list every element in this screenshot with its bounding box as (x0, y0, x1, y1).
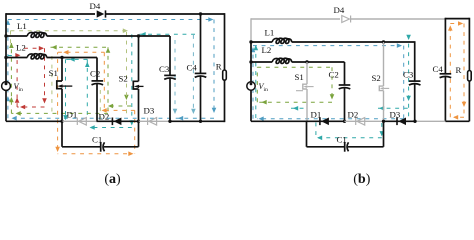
wire: rail gray segment to output box (b) (415, 120, 445, 122)
resistor R (a) (216, 61, 227, 80)
capacitor C3 (a) (159, 36, 176, 121)
switch S2 (a) (119, 36, 144, 121)
current path pale-olive (a): L1 to S2 path (11, 28, 129, 119)
wire: outer left border (a) with gap for source (5, 13, 7, 121)
svg-text:C3: C3 (403, 70, 414, 80)
node: S1 drain junction on L2 row (a) (60, 56, 63, 59)
capacitor C3 (b) (403, 41, 421, 121)
node: C3 bottom junction (a) (168, 120, 171, 123)
svg-text:C1: C1 (92, 135, 102, 145)
node: L1 row joins left border (a) (4, 34, 7, 37)
wire: left border (b) with gap for source (250, 42, 252, 121)
wire: outer right border (a) with resistor gap (224, 13, 226, 122)
svg-text:D4: D4 (90, 1, 101, 11)
node: C4 bottom junction (a) (199, 120, 202, 123)
switch S2 (b), inactive (372, 42, 390, 121)
node: S1 source junction on rail (a) (60, 120, 63, 123)
svg-text:S2: S2 (372, 73, 381, 83)
diode D3 (b) (390, 110, 407, 126)
current path orange loop (a): C2-D2-C1 loop (55, 50, 134, 156)
wire: top rail (a) (6, 13, 225, 15)
node: C4 top junction (a) (199, 12, 202, 15)
inductor L2 (a) (6, 43, 97, 59)
svg-text:R: R (216, 61, 222, 71)
svg-text:C2: C2 (90, 69, 100, 79)
resistor R (b) on box right edge (456, 65, 472, 81)
inductor L2 (b) (251, 45, 345, 63)
inductor L1 (b) (251, 28, 415, 44)
node: L2 row joins left border (b) (249, 60, 252, 63)
wire: rail black segment through D2 (a) (97, 120, 139, 122)
current path blue branch (a): down C4 side (191, 35, 196, 114)
switch S1 (a) (49, 58, 73, 122)
diode D4 (a) (90, 1, 106, 18)
capacitor C4 (a) (187, 14, 207, 121)
node: C2 bottom junction (b) (343, 120, 346, 123)
wire: rail gray segment through D3 (a) (139, 120, 171, 122)
voltage source Vin (a) (2, 82, 23, 93)
wire: rail gray segment through D1 (a) (62, 120, 97, 122)
current path teal segments (b): C1-D3 loop (254, 35, 411, 140)
diode D4 (b), inactive (334, 5, 351, 23)
capacitor C1 loop (b) (307, 121, 384, 151)
svg-text:D1: D1 (67, 110, 78, 120)
diode D2 (a) (99, 112, 122, 126)
capacitor C1 loop (a) (62, 121, 139, 151)
svg-text:S1: S1 (295, 72, 304, 82)
node: L1 row joins left border (b) (249, 40, 252, 43)
svg-text:R: R (456, 65, 462, 75)
svg-text:C1: C1 (337, 135, 347, 145)
node: C3 bottom junction (b) (413, 120, 416, 123)
voltage source Vin (b) (247, 82, 268, 93)
current path green loop (a): Vin-L2-C2 loop (9, 43, 131, 116)
svg-text:C4: C4 (187, 63, 198, 73)
svg-text:C2: C2 (329, 70, 339, 80)
output box with C4 and R (b) (445, 18, 469, 122)
wire: gray top rail (b), inactive D4 path (251, 18, 445, 42)
wire: bottom rail right segment (a) (170, 120, 225, 122)
svg-text:C4: C4 (433, 64, 444, 74)
svg-text:D2: D2 (99, 112, 110, 122)
capacitor C2 (a) (90, 58, 103, 122)
wire: rail gray segment through D2 (b) (345, 120, 384, 122)
current path teal loop (a): C2-S1-D1-C1 segments (8, 32, 196, 130)
diode D3 (a), inactive (144, 106, 157, 126)
wire: rail black segment through D3 (b) (384, 120, 416, 122)
wire: L1 row extension to C3 (a) (139, 35, 171, 37)
svg-text:D1: D1 (311, 110, 322, 120)
wire: bottom rail left segment (a) (6, 120, 64, 122)
capacitor C2 (b) (329, 62, 351, 121)
node: S2 source junction on rail (a) (137, 120, 140, 123)
svg-text:D2: D2 (348, 110, 359, 120)
inductor L1 (a) (6, 21, 139, 37)
diode D1 (b) (311, 110, 329, 126)
svg-text:C3: C3 (159, 64, 170, 74)
svg-text:L2: L2 (262, 45, 272, 55)
node: L2 row joins left border (a) (4, 56, 7, 59)
current path blue loop (a): outer Vin-D4-output loop (6, 17, 217, 120)
capacitor C4 (b) on box left edge (433, 64, 452, 78)
node: S2 source junction on rail (b) (382, 120, 385, 123)
current path olive loop (b): L2-C2 loop (257, 67, 334, 104)
node: S2 drain junction on L1 row (b) (382, 40, 385, 43)
svg-text:L1: L1 (265, 28, 275, 38)
node: S1 drain junction on L2 row (b) (305, 60, 308, 63)
current path blue loop (b): Vin-L1-C3 loop (251, 43, 404, 121)
svg-text:L2: L2 (16, 43, 26, 53)
current path red loop (a): Vin-L2 small loop (15, 46, 47, 109)
svg-text:D3: D3 (144, 106, 155, 116)
diode D1 (a), inactive (67, 110, 87, 126)
svg-text:(a): (a) (104, 172, 121, 187)
svg-text:(b): (b) (353, 172, 370, 187)
svg-text:D4: D4 (334, 5, 345, 15)
svg-text:D3: D3 (390, 110, 401, 120)
wire: bottom rail left black segment with D1 (b) (251, 120, 345, 122)
current path orange loop (b): C4-R loop (448, 21, 466, 119)
current path blue branch (a): down C3 side (173, 40, 178, 114)
node: S2 drain junction on L1 row (a) (137, 34, 140, 37)
svg-text:S1: S1 (49, 68, 58, 78)
switch S1 (b), inactive (295, 62, 314, 121)
svg-text:L1: L1 (17, 21, 27, 31)
svg-text:S2: S2 (119, 74, 128, 84)
diode D2 (b), inactive (348, 110, 365, 126)
